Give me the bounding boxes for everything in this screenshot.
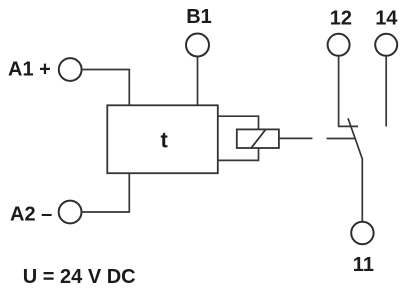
svg-text:A2 –: A2 –: [10, 203, 52, 225]
terminal B1: [186, 34, 209, 57]
wire actuator link: [327, 138, 355, 140]
wire coil output: [279, 137, 313, 139]
terminal 12: [328, 34, 350, 56]
svg-text:14: 14: [375, 7, 398, 29]
wire contact 12 fixed: [339, 56, 358, 127]
wire A1 to timer box: [82, 70, 130, 106]
wire bracket to relay coil: [218, 116, 259, 160]
terminal A1: [59, 58, 82, 81]
relay output symbol: [237, 129, 279, 148]
timer box K1: [107, 105, 218, 173]
svg-text:t: t: [161, 127, 169, 152]
svg-text:11: 11: [353, 254, 374, 276]
wire A2 to timer box: [82, 173, 130, 212]
svg-text:12: 12: [330, 7, 352, 29]
terminal A2: [59, 201, 82, 224]
wire contact 14 fixed: [385, 56, 387, 127]
svg-text:A1 +: A1 +: [8, 58, 51, 80]
wire B1 to timer box: [197, 57, 199, 106]
terminal 11: [351, 222, 373, 244]
terminal 14: [375, 34, 397, 56]
contact arm: [348, 118, 362, 159]
svg-text:U = 24 V DC: U = 24 V DC: [23, 266, 136, 288]
svg-text:B1: B1: [186, 6, 212, 28]
wire arm to terminal 11: [361, 158, 363, 222]
